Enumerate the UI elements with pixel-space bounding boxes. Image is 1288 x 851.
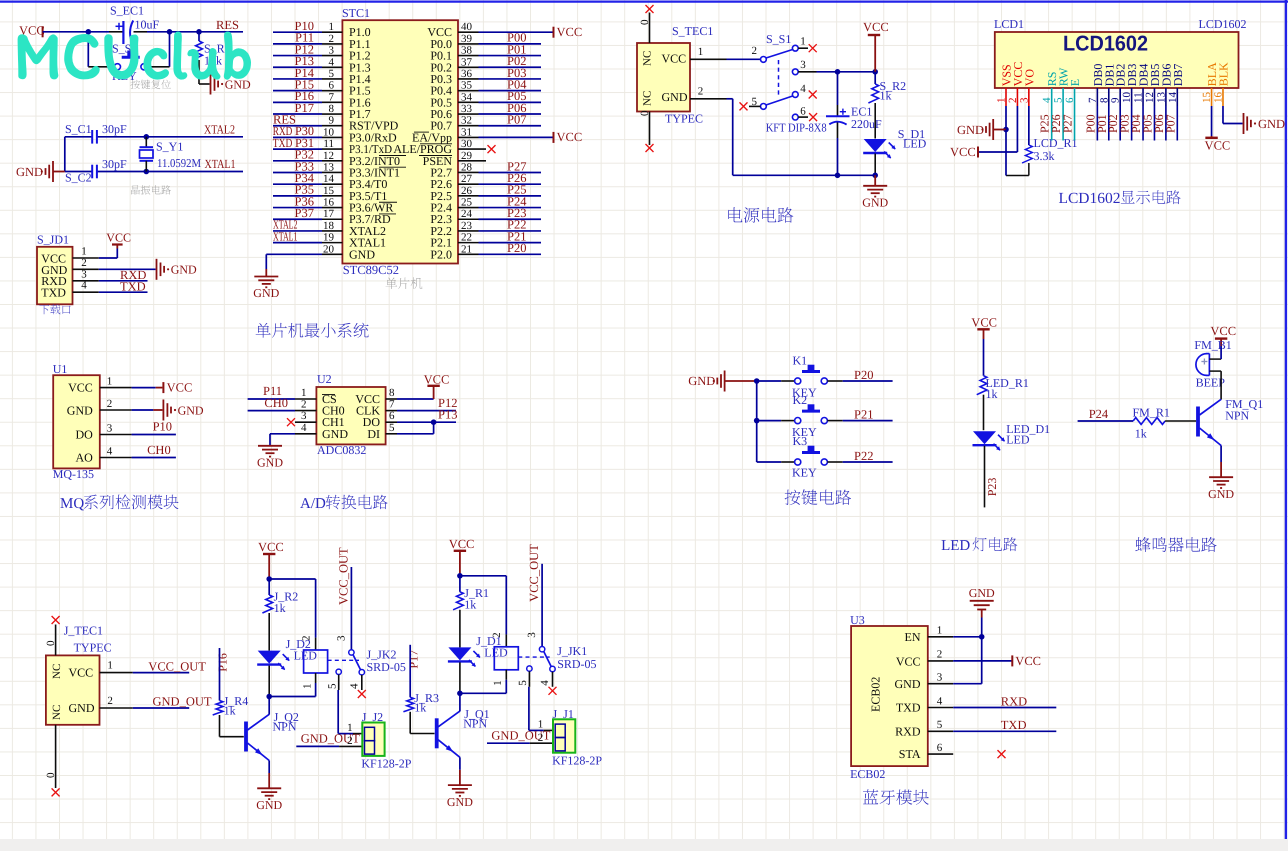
no connect MCU pin30 (488, 145, 496, 153)
pin 5 STC1 with wire (273, 68, 342, 80)
title MCU minimal system (256, 323, 369, 338)
svg-text:3: 3 (335, 635, 347, 641)
wire and net label P05 (MCU) (479, 89, 542, 103)
svg-text:S_Y1: S_Y1 (156, 140, 183, 154)
svg-text:VCC: VCC (69, 666, 94, 680)
svg-text:VCC_OUT: VCC_OUT (527, 544, 541, 602)
wire and net label P04 (MCU) (479, 77, 542, 91)
net label P33 (MCU) (295, 159, 314, 173)
power port VCC (S_JD1) (106, 231, 131, 249)
pin 4 S_JD1 TXD (73, 280, 148, 293)
svg-text:P22: P22 (854, 449, 873, 463)
svg-text:J_TEC1: J_TEC1 (64, 624, 103, 638)
resistor LCD_R1 3.3k (1006, 106, 1078, 176)
svg-text:LCD1602: LCD1602 (1059, 190, 1121, 207)
svg-text:2: 2 (1007, 98, 1019, 104)
net label P17 (MCU) (295, 101, 314, 115)
svg-text:VCC: VCC (1205, 139, 1231, 153)
no connect S_S1 pin6 (809, 113, 817, 121)
net label RXD (U3) (1001, 694, 1027, 708)
svg-text:5: 5 (329, 68, 335, 80)
svg-text:SRD-05: SRD-05 (367, 660, 406, 674)
capacitor S_C2 30pF (65, 157, 147, 185)
pin 7 U2 CLK (386, 399, 456, 411)
resistor S_R2 1k (868, 72, 906, 139)
junction K2 (754, 418, 760, 424)
ground MCU (253, 269, 279, 300)
svg-text:4: 4 (539, 680, 551, 686)
svg-text:LED: LED (941, 538, 970, 554)
connector S_TEC1 TYPEC body (637, 24, 713, 112)
svg-text:GND: GND (257, 456, 283, 470)
pin 1 U3 stub (928, 625, 953, 637)
svg-text:34: 34 (461, 91, 473, 103)
net label P15 (MCU) (295, 77, 314, 91)
diode S_D1 LED (863, 127, 926, 175)
power port VCC (relay J_JK2) (258, 540, 284, 579)
svg-text:S_C1: S_C1 (65, 122, 92, 136)
pin 5 U3 stub (928, 719, 953, 731)
svg-text:P24: P24 (1089, 407, 1109, 421)
pin 1 S_TEC1 VCC wire (690, 46, 760, 60)
svg-text:0: 0 (45, 772, 57, 778)
net label CH0 (U2) (264, 396, 288, 410)
power port VCC (LED) (971, 316, 997, 340)
svg-text:P10: P10 (153, 420, 172, 434)
svg-text:VCC: VCC (662, 52, 687, 66)
pin 5 U2 DI (386, 422, 434, 434)
annotation crystal caption (131, 185, 171, 194)
svg-text:VCC: VCC (424, 373, 450, 387)
svg-text:VCC: VCC (1210, 324, 1236, 338)
pin 9 STC1 with wire (273, 115, 342, 127)
svg-text:2: 2 (347, 735, 353, 747)
svg-text:K1: K1 (793, 354, 808, 368)
svg-text:RES: RES (216, 18, 239, 32)
svg-text:VCC: VCC (863, 20, 889, 34)
wire S_S1 pin3 to rail (798, 71, 875, 73)
wire and net label P04 (LCD DB4) (1129, 106, 1143, 141)
svg-text:32: 32 (461, 115, 472, 127)
connector J_TEC1 TYPEC body (46, 624, 112, 725)
junction S_D1 bottom (872, 173, 878, 179)
pin 1 S_JD1 VCC (73, 246, 118, 259)
pin 36 STC1 stub (458, 68, 479, 80)
svg-text:U3: U3 (850, 613, 865, 627)
svg-text:GND: GND (253, 286, 279, 300)
no connect U3 STA (998, 750, 1006, 758)
switch K3 KEY (757, 434, 893, 480)
pin 5 LCD1 RW (1053, 67, 1071, 106)
pin 2 U1 GND (100, 398, 163, 410)
svg-text:LED: LED (1006, 432, 1030, 446)
wire XTAL2 (146, 136, 243, 138)
svg-text:37: 37 (461, 56, 473, 68)
svg-text:GND: GND (895, 677, 921, 691)
no connect J_TEC1 bottom (45, 725, 60, 797)
net label P12 (MCU) (295, 42, 314, 56)
title buzzer circuit (1135, 537, 1216, 552)
ic U1 part name (53, 467, 94, 481)
net label P21 (854, 407, 873, 421)
svg-text:VCC_OUT: VCC_OUT (337, 547, 351, 605)
svg-text:LCD1: LCD1 (994, 17, 1024, 31)
crystal S_Y1 11.0592M (140, 137, 202, 172)
title AD conversion circuit (300, 495, 388, 512)
junction U2 DO-DI (431, 419, 437, 425)
svg-text:1: 1 (492, 680, 504, 686)
svg-text:14: 14 (1167, 92, 1179, 104)
ground power circuit (862, 175, 888, 209)
power port VCC (U1) (156, 380, 193, 394)
relay coil J_JK1 (492, 647, 518, 694)
svg-text:2: 2 (752, 45, 758, 57)
wire U3 TXD (953, 707, 1056, 709)
pin 19 STC1 with wire (273, 232, 342, 244)
wire GND_OUT to terminal J_J1 (487, 742, 553, 744)
svg-text:3: 3 (329, 45, 335, 57)
wire and net label P20 (MCU) (479, 241, 542, 255)
svg-text:KEY: KEY (792, 466, 817, 480)
wire emitter to ground J_Q2 (268, 761, 270, 789)
power port VCC (U3) (1012, 654, 1041, 668)
pin 37 STC1 stub (458, 56, 479, 68)
ic U3 part name (850, 767, 885, 781)
wire and net label P26 (MCU) (479, 171, 542, 185)
wire and net label P26 (LCD) (1049, 106, 1063, 141)
pin 8 U2 VCC (386, 387, 434, 399)
svg-text:13: 13 (1155, 92, 1167, 104)
svg-text:NPN: NPN (273, 720, 297, 734)
net label P20 (854, 368, 873, 382)
pin 17 STC1 with wire (273, 208, 342, 220)
wire U3 EN to GND rail (953, 636, 982, 638)
wire relay coil top J_JK2 (269, 579, 315, 650)
svg-text:2: 2 (81, 257, 87, 269)
svg-text:6: 6 (389, 410, 395, 422)
svg-text:0: 0 (45, 640, 57, 646)
svg-text:1: 1 (302, 684, 314, 690)
pin 4 U2 GND (270, 422, 316, 445)
ground S_JD1 (157, 259, 198, 280)
pin 3 LCD1 VO (1018, 69, 1036, 106)
no connect relay pin4 J_JK2 (358, 675, 366, 698)
svg-text:P16: P16 (216, 653, 230, 672)
ic LCD1 LCD1602 body (994, 17, 1247, 88)
svg-text:1k: 1k (274, 601, 286, 615)
svg-text:XTAL2: XTAL2 (204, 123, 235, 137)
net label RES (216, 18, 239, 32)
svg-text:8: 8 (389, 387, 395, 399)
svg-text:2: 2 (107, 695, 113, 707)
switch S_S2 (reset key) (88, 32, 169, 83)
ic U1 MQ-135 body (53, 362, 100, 468)
svg-text:GND: GND (67, 403, 93, 417)
svg-text:11.0592M: 11.0592M (157, 156, 201, 170)
annotation MCU caption (386, 278, 423, 290)
power port VCC (LCD backlight) (1205, 136, 1231, 153)
svg-text:FM_R1: FM_R1 (1133, 405, 1170, 419)
svg-text:DO: DO (75, 427, 93, 441)
svg-text:NC: NC (642, 91, 654, 106)
net label P32 (MCU) (295, 148, 314, 162)
wire collector J_Q2 (268, 697, 270, 715)
title MQ module (60, 495, 179, 512)
svg-text:ECB02: ECB02 (869, 677, 883, 712)
net label GND_OUT (relay J_JK1) (491, 728, 550, 742)
wire and net label P06 (LCD DB6) (1152, 106, 1166, 141)
net label P22 (854, 449, 873, 463)
power port VCC (buzzer) (1210, 324, 1236, 346)
svg-text:1k: 1k (880, 88, 892, 102)
wire and net label P21 (MCU) (479, 229, 542, 243)
svg-text:NC: NC (51, 705, 63, 720)
pin 6 STC1 with wire (273, 80, 342, 92)
pin 4 STC1 with wire (273, 56, 342, 68)
pin 31 STC1 stub (458, 126, 479, 138)
ground relay J_JK2 (256, 788, 282, 812)
svg-text:6: 6 (800, 105, 806, 117)
pin 9 LCD1 DB2 (1110, 64, 1128, 106)
net label P10 (MCU) (295, 19, 314, 33)
svg-text:35: 35 (461, 80, 473, 92)
resistor FM_R1 1k (1078, 405, 1197, 440)
svg-text:16: 16 (1212, 92, 1224, 104)
svg-text:7: 7 (329, 91, 335, 103)
wire and net label P22 (MCU) (479, 218, 542, 232)
svg-text:5: 5 (389, 422, 395, 434)
logo MCUclub (18, 32, 250, 79)
svg-text:VCC: VCC (258, 540, 284, 554)
svg-text:1: 1 (996, 98, 1008, 104)
svg-text:26: 26 (461, 185, 473, 197)
svg-text:TXD: TXD (1001, 718, 1027, 732)
svg-text:U1: U1 (53, 362, 68, 376)
wire MCU pin31 EA (479, 136, 554, 138)
svg-text:4: 4 (301, 422, 307, 434)
pin 4 U3 stub (928, 695, 953, 707)
net label P13 (U2) (438, 408, 457, 422)
pin 26 STC1 stub (458, 185, 479, 197)
ground U2 (257, 445, 283, 470)
svg-text:2: 2 (937, 649, 943, 661)
pin 8 LCD1 DB1 (1098, 64, 1116, 106)
wire and net label P03 (MCU) (479, 66, 542, 80)
wire and net label P25 (MCU) (479, 183, 542, 197)
wire GND_OUT to terminal J_J2 (296, 745, 362, 747)
svg-text:P20: P20 (507, 241, 526, 255)
svg-text:KF128-2P: KF128-2P (361, 757, 411, 771)
net label P16 (MCU) (295, 89, 314, 103)
svg-text:39: 39 (461, 33, 473, 45)
svg-text:13: 13 (323, 161, 335, 173)
wire and net label P25 (LCD) (1038, 106, 1052, 141)
svg-text:P2.0: P2.0 (430, 247, 452, 261)
svg-text:GND: GND (862, 196, 888, 210)
svg-text:SRD-05: SRD-05 (557, 657, 596, 671)
junction S_R2 top (872, 69, 878, 75)
net label RXD P30 (MCU) (273, 124, 314, 138)
pin 34 STC1 stub (458, 91, 479, 103)
net label P14 (MCU) (295, 66, 315, 80)
svg-text:P07: P07 (507, 113, 526, 127)
wire and net label P01 (MCU) (479, 42, 542, 56)
svg-text:P17: P17 (406, 650, 420, 669)
svg-text:12: 12 (1144, 92, 1156, 103)
wire LCD pin16 BLK to ground (1223, 106, 1243, 124)
svg-text:AO: AO (75, 450, 93, 464)
svg-text:VCC_OUT: VCC_OUT (148, 659, 206, 673)
pin 2 LCD1 VCC (1007, 62, 1025, 106)
pin 11 LCD1 DB4 (1133, 64, 1151, 106)
svg-text:S_TEC1: S_TEC1 (672, 24, 713, 38)
net label RXD (S_JD1) (120, 268, 146, 282)
svg-text:GND: GND (1258, 117, 1285, 131)
pin 2 S_JD1 GND (73, 257, 156, 270)
svg-text:P07: P07 (1163, 114, 1177, 133)
ic STC1 pin names (349, 25, 452, 261)
wire and net label P01 (LCD DB1) (1095, 106, 1109, 141)
svg-text:6: 6 (937, 742, 943, 754)
no connect S_TEC1 bottom (639, 110, 654, 152)
svg-text:17: 17 (323, 208, 335, 220)
svg-text:P17: P17 (295, 101, 314, 115)
pin 2 S_TEC1 GND wire (690, 85, 875, 175)
wire collector J_Q1 (459, 693, 461, 711)
svg-text:2: 2 (301, 399, 307, 411)
ground LCD right (1244, 113, 1286, 134)
svg-text:KFT DIP-8X8: KFT DIP-8X8 (766, 120, 827, 134)
svg-text:1k: 1k (224, 704, 236, 718)
power port VCC (MCU pin31) (554, 130, 583, 144)
wire buzzer to collector (1220, 346, 1222, 400)
ground buzzer (1208, 477, 1234, 501)
svg-text:8: 8 (329, 103, 335, 115)
wire LCD pin1 VSS to ground (1005, 106, 1007, 130)
svg-text:10uF: 10uF (135, 18, 160, 32)
svg-text:VCC: VCC (1015, 654, 1041, 668)
pin 4 LCD1 RS (1041, 72, 1059, 106)
net label TXD P31 (MCU) (273, 136, 314, 150)
wire and net label P07 (LCD DB7) (1163, 106, 1177, 141)
svg-text:3.3k: 3.3k (1034, 149, 1055, 163)
junction reset-left (86, 29, 92, 35)
svg-text:19: 19 (323, 232, 335, 244)
net label P23 (rotated) (985, 478, 999, 497)
svg-text:0: 0 (639, 110, 651, 116)
svg-text:GND: GND (957, 123, 984, 137)
svg-text:29: 29 (461, 150, 473, 162)
svg-text:33: 33 (461, 103, 473, 115)
net label P1x (relay J_JK1) (406, 650, 420, 669)
pin 1 U2 CS (248, 387, 317, 399)
no connect relay pin4 J_JK1 (549, 672, 557, 695)
net label P24 (1089, 407, 1109, 421)
power port VCC (MCU pin40) (554, 25, 583, 39)
pin 7 LCD1 DB0 (1087, 64, 1105, 106)
svg-text:6: 6 (329, 80, 335, 92)
ground LCD left (957, 119, 1006, 140)
svg-text:2: 2 (698, 85, 704, 97)
net label CH0 (U1) (147, 443, 171, 457)
pin 10 LCD1 DB3 (1121, 64, 1139, 106)
ground S_R1 (199, 74, 251, 95)
wire and net label P23 (MCU) (479, 206, 542, 220)
net label P35 (MCU) (295, 183, 314, 197)
svg-text:GND: GND (178, 403, 204, 417)
svg-text:3: 3 (107, 423, 113, 435)
svg-text:S_JD1: S_JD1 (37, 233, 69, 247)
pin 11 STC1 with wire (273, 138, 342, 150)
pin 3 U3 stub (928, 672, 953, 684)
ground keys (688, 371, 757, 392)
pin 16 STC1 with wire (273, 197, 342, 209)
pin 28 STC1 stub (458, 161, 479, 173)
svg-text:J_JK1: J_JK1 (557, 644, 587, 658)
svg-text:4: 4 (348, 683, 360, 689)
junction relay flyback J_JK1 (457, 691, 506, 697)
svg-text:10: 10 (323, 126, 335, 138)
pin 40 STC1 stub (458, 21, 479, 33)
svg-text:1: 1 (347, 722, 353, 734)
wire and net label P05 (LCD DB5) (1140, 106, 1154, 141)
resistor LED_R1 1k (977, 339, 1029, 430)
svg-text:S_S1: S_S1 (766, 32, 791, 46)
net label TXD (U3) (1001, 718, 1027, 732)
wire relay pin5 to terminal J_JK1 (529, 671, 553, 730)
svg-text:7: 7 (389, 399, 395, 411)
buzzer FM_B1 BEEP (1194, 338, 1231, 390)
annotation download port caption (39, 304, 70, 314)
svg-text:1: 1 (937, 625, 943, 637)
svg-text:4: 4 (329, 56, 335, 68)
svg-text:VO: VO (1022, 69, 1036, 87)
svg-text:2: 2 (538, 732, 544, 744)
switch K1 KEY (757, 354, 893, 400)
relay switch J_JK1 SRD-05 (517, 564, 597, 686)
connector S_JD1 (download port) (37, 233, 73, 305)
svg-text:XTAL1: XTAL1 (273, 229, 298, 243)
diode LED_D1 LED (973, 422, 1051, 508)
svg-text:KF128-2P: KF128-2P (552, 753, 602, 767)
svg-text:30pF: 30pF (102, 122, 127, 136)
ic U2 ADC0832 body (316, 372, 385, 444)
junction K1 (754, 378, 760, 384)
svg-text:STA: STA (899, 747, 921, 761)
svg-text:VCC: VCC (557, 25, 583, 39)
svg-text:GND: GND (16, 165, 43, 179)
svg-text:VCC: VCC (557, 130, 583, 144)
pin 2 STC1 with wire (273, 33, 342, 45)
svg-text:P13: P13 (438, 408, 457, 422)
svg-text:3: 3 (81, 268, 87, 280)
svg-text:MQ-135: MQ-135 (53, 467, 94, 481)
pin 2 U2 CH0 (248, 399, 317, 411)
no connect S_S1 pin5 (740, 102, 748, 110)
svg-text:4: 4 (107, 446, 113, 458)
pin 39 STC1 stub (458, 33, 479, 45)
wire and net label P03 (LCD DB3) (1118, 106, 1132, 141)
svg-text:A/D: A/D (300, 496, 326, 512)
svg-text:11: 11 (1133, 92, 1145, 103)
no connect S_S1 pin1 (809, 44, 817, 52)
wire MCU pin 20 GND (266, 243, 342, 269)
svg-text:NC: NC (642, 51, 654, 66)
svg-text:CH0: CH0 (147, 443, 171, 457)
pin 13 STC1 with wire (273, 161, 342, 173)
pin 30 STC1 stub (458, 138, 486, 150)
title key circuit (785, 489, 851, 505)
